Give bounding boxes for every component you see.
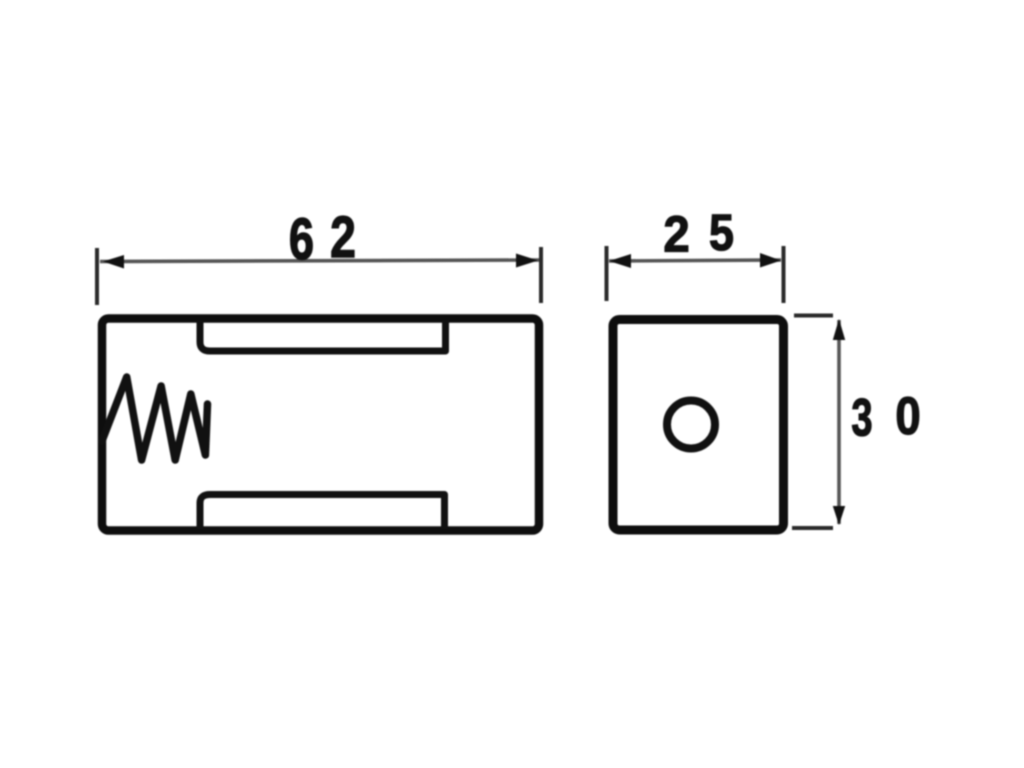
battery holder side view outline xyxy=(613,320,784,531)
top slot (front view) xyxy=(200,320,446,351)
dimension 30 extension line bottom xyxy=(792,526,833,530)
svg-text:5: 5 xyxy=(709,205,734,261)
dimension 25 line xyxy=(609,260,781,261)
dimension 30 arrowhead bottom xyxy=(833,506,845,525)
dimension 25 arrowhead right xyxy=(760,253,781,268)
bottom slot (front view) xyxy=(200,495,445,530)
dimension 62 extension line left xyxy=(95,248,99,305)
svg-text:3: 3 xyxy=(851,387,872,447)
spring contact xyxy=(102,377,208,460)
dimension 30 line xyxy=(837,320,841,524)
dimension 62 extension line right xyxy=(539,247,543,303)
dimension 62 line xyxy=(100,260,539,262)
dimension 25 extension line left xyxy=(605,246,609,301)
dimension 62 arrowhead right xyxy=(516,254,538,268)
battery holder front view outline xyxy=(102,319,539,531)
terminal hole (side view) xyxy=(667,401,715,449)
svg-text:6: 6 xyxy=(289,208,314,273)
dimension 25 arrowhead left xyxy=(609,254,631,268)
dimension 30 arrowhead top xyxy=(833,319,845,340)
dimension 30 extension line top xyxy=(794,314,833,318)
dimension 62 arrowhead left xyxy=(103,255,124,269)
dimension 25 extension line right xyxy=(782,246,786,303)
svg-text:2: 2 xyxy=(330,205,356,270)
svg-text:2: 2 xyxy=(663,206,689,263)
svg-text:0: 0 xyxy=(895,387,920,446)
